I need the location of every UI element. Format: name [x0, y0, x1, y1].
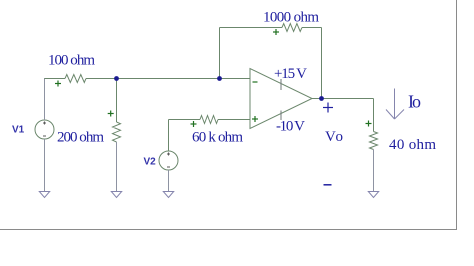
svg-text:V1: V1 — [12, 125, 25, 136]
svg-text:40 ohm: 40 ohm — [389, 137, 436, 153]
svg-text:1000 ohm: 1000 ohm — [263, 10, 319, 26]
svg-text:Io: Io — [408, 92, 421, 112]
svg-text:V2: V2 — [144, 157, 157, 168]
svg-text:+15 V: +15 V — [274, 66, 307, 82]
svg-text:200 ohm: 200 ohm — [57, 130, 104, 146]
svg-text:-10 V: -10 V — [276, 119, 305, 135]
svg-text:60 k ohm: 60 k ohm — [192, 130, 243, 146]
svg-text:100 ohm: 100 ohm — [48, 53, 95, 69]
